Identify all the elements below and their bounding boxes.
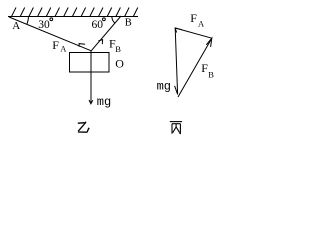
svg-text:A: A [60,44,67,54]
svg-text:F: F [201,61,208,75]
vector F_A line (right figure) [175,28,212,38]
string B to knot O [91,16,121,51]
svg-text:60: 60 [92,19,104,31]
vector mg line (right figure) [175,28,177,94]
svg-text:B: B [115,44,121,54]
mg arrowhead (left figure) [89,100,93,104]
svg-text:O: O [115,57,124,71]
mg arrowhead (right figure) [175,86,178,95]
svg-text:F: F [190,11,197,25]
vector F_B line (right figure) [178,38,212,97]
ceiling hatch marks [12,8,138,17]
label Bing (third) character [170,122,182,134]
svg-text:A: A [12,20,20,32]
svg-text:mg: mg [157,80,171,94]
arrowhead of vector F_A [175,28,182,33]
arrowhead F_B on right string [98,40,102,44]
svg-text:mg: mg [97,95,111,109]
box (object) hanging at O [70,53,110,73]
arrowhead of vector F_B [206,38,212,47]
svg-text:30: 30 [38,19,50,31]
angle arc at B (60 deg) [112,16,115,23]
svg-text:A: A [198,18,205,28]
arrowhead F_A on left string [79,44,85,47]
vertical string / mg line through box [90,51,92,104]
string A to knot O [9,17,91,51]
ceiling line [8,16,138,18]
svg-text:B: B [125,18,132,29]
svg-text:F: F [52,38,59,52]
label Yi (second) character [78,122,90,133]
angle arc at A (30 deg) [27,17,29,24]
svg-text:B: B [208,70,214,80]
